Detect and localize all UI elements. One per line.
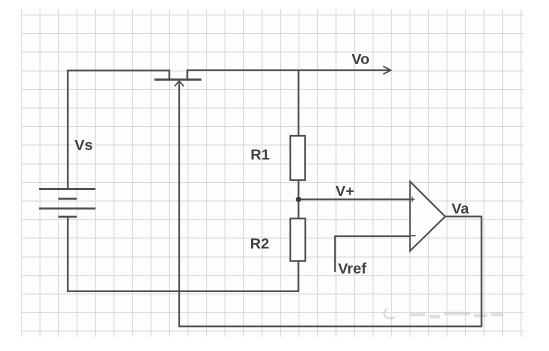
- wire: R1 to junction to R2: [298, 180, 300, 218]
- wire: Vref up and right to op-amp inverting input: [335, 236, 410, 272]
- op-amp minus input marker: [411, 235, 416, 237]
- svg-text:R1: R1: [251, 147, 270, 164]
- wire: R2 bottom down, left to battery negative: [68, 217, 299, 291]
- transistor Q1 channel bar: [154, 78, 201, 80]
- watermark: [384, 309, 503, 319]
- battery Vs plate long lower: [39, 208, 95, 210]
- arrowhead of Vo output: [383, 66, 391, 74]
- svg-text:Vo: Vo: [352, 51, 370, 68]
- node: R1/R2 junction dot: [296, 197, 301, 202]
- resistor R1 body: [290, 136, 305, 180]
- svg-text:V+: V+: [336, 183, 355, 200]
- op-amp plus input marker: [410, 197, 415, 202]
- svg-text:R2: R2: [250, 236, 269, 253]
- wire: transistor drain up to top rail toward Vo: [187, 70, 390, 79]
- wire: V+ from junction to op-amp: [299, 198, 410, 200]
- transistor Q1 gate arrow: [175, 81, 184, 86]
- wire: Vs positive terminal up and across to transistor source: [68, 71, 170, 190]
- wire: gate down, bottom rail, up to op-amp output: [179, 82, 481, 326]
- battery Vs plate short upper: [58, 198, 77, 200]
- svg-text:Vs: Vs: [75, 137, 93, 154]
- svg-text:Vref: Vref: [338, 261, 367, 278]
- battery Vs plate short bottom: [58, 216, 77, 218]
- svg-text:Va: Va: [452, 201, 470, 218]
- wire: top rail down to R1: [298, 70, 300, 136]
- resistor R2 body: [290, 219, 305, 262]
- op-amp U1 triangle: [410, 182, 445, 252]
- battery Vs plate long top: [39, 188, 95, 190]
